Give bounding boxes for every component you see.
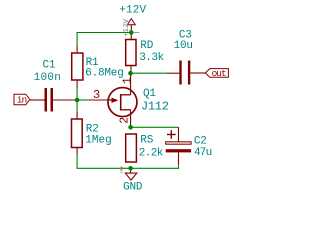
svg-text:3: 3 (93, 88, 100, 102)
svg-text:+12V: +12V (119, 5, 146, 17)
svg-text:out: out (212, 68, 226, 79)
svg-text:J112: J112 (141, 99, 169, 113)
svg-text:GND: GND (121, 166, 125, 174)
svg-text:2: 2 (119, 117, 132, 124)
svg-text:RD: RD (140, 40, 153, 52)
svg-text:6.8Meg: 6.8Meg (85, 67, 123, 79)
svg-text:+12V: +12V (123, 18, 131, 37)
svg-text:47u: 47u (194, 147, 212, 159)
svg-text:C1: C1 (43, 60, 56, 72)
svg-text:RS: RS (140, 135, 153, 147)
svg-text:100n: 100n (34, 72, 62, 84)
svg-text:1Meg: 1Meg (85, 134, 111, 146)
svg-text:2.2k: 2.2k (139, 147, 164, 159)
svg-text:3.3k: 3.3k (139, 52, 164, 64)
svg-text:in: in (17, 95, 27, 106)
svg-text:GND: GND (123, 182, 143, 194)
svg-text:10u: 10u (174, 40, 193, 52)
svg-text:Q1: Q1 (143, 88, 156, 100)
